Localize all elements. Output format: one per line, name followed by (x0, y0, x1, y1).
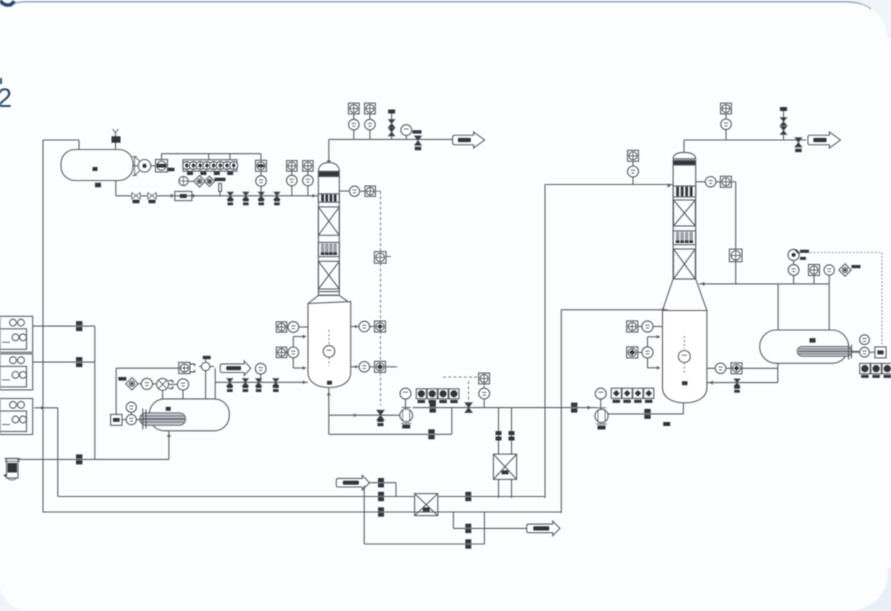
pipe: utility header drop (94, 326, 96, 459)
PSV bubble (dark) (788, 249, 799, 260)
V2 feed row label (118, 377, 126, 381)
pump P1 motor bubble (400, 388, 411, 399)
C2 vent stack (783, 111, 785, 140)
pump P2 motor bubble (595, 388, 606, 399)
signal line horizontal (dashed) (443, 376, 479, 378)
flow bubble FQ (479, 388, 490, 399)
drum D1 bottom nozzle label (95, 183, 101, 188)
pipe: feed 1 to C2 (545, 184, 673, 186)
column C1 demister band (318, 171, 339, 176)
pipe: UB-C supply (34, 407, 58, 409)
flow valve FV2 (465, 403, 473, 408)
off-page flag: STEAM out (527, 521, 560, 536)
sample valve circle (179, 176, 188, 185)
pipe: feed 2 to C2 (recycle) (561, 309, 667, 311)
column C2 overhead riser (683, 140, 685, 152)
overhead instrument A (bubble) (349, 119, 360, 130)
C2 left bubble B (642, 347, 653, 358)
vent label arrow (215, 178, 226, 181)
C1 right lower bubble (359, 362, 370, 373)
bubble 1 on V2 feed (141, 378, 152, 389)
off-page flag: C1 vent (453, 132, 485, 148)
flow diamond on V2 feed (126, 378, 138, 390)
V2 bubble T (126, 402, 136, 412)
pipe: IS3 drop (307, 171, 309, 175)
pipe: drum overflow loop (left tall run) (42, 140, 44, 512)
valve manifold VM1 frame (183, 160, 237, 172)
tag on recirculation (428, 429, 434, 433)
gate valve GV1 (132, 193, 136, 200)
bubble 2 on V2 feed (177, 379, 188, 390)
inline filter FL2 (vertical) (7, 459, 19, 479)
control valve on vent line (415, 136, 422, 141)
bottom-left corner tint (0, 590, 24, 611)
C2 left level taps (647, 337, 649, 347)
flow square FQ (479, 373, 490, 384)
tag near P2 suction (571, 403, 577, 407)
D2 bottom valve row (860, 363, 870, 373)
column C2 dome (673, 152, 696, 158)
signal: PSV to TI (dotted) (799, 252, 882, 254)
instrument stand IS3 (square) (303, 161, 314, 172)
gate valve GV2 (148, 193, 152, 200)
column C2 sump shell (663, 311, 707, 403)
C2 control valve on vent (795, 138, 802, 143)
pipe: condensate loop (line4) (364, 543, 484, 545)
C1 right lower nozzle (351, 366, 359, 368)
block valve BV2 (243, 192, 249, 196)
column C2 skirt cone (663, 279, 707, 311)
C1 top-right bubble (349, 186, 359, 196)
reducer at drum outlet (132, 157, 140, 176)
tag on line2 (378, 507, 384, 511)
check valve diamond 1 (194, 176, 206, 188)
valve stem to vessel (205, 371, 207, 399)
C2 feed instrument (square) (628, 150, 639, 161)
drum D2 label dot (810, 338, 816, 343)
column C1 skirt cone (308, 295, 351, 303)
pump bubble on V2 feed (157, 378, 169, 390)
exchanger E2 (crossed box) (493, 454, 516, 479)
column C2 demister band (673, 160, 696, 165)
pipe: C1 to pump P1 (329, 414, 400, 416)
heater vessel V2 shell (149, 399, 229, 431)
heading text fragment (top-left, cropped) (0, 0, 14, 5)
column C2 packing X1 (674, 200, 696, 226)
check valve diamond 2 (204, 176, 214, 186)
pipe: D1 bottom feed header (115, 181, 117, 196)
C2 overhead instrument (bubble) (721, 119, 732, 130)
instrument stand IS1 (bubble) (256, 176, 267, 187)
off-page flag: STEAM in (336, 475, 369, 490)
C2 left bubble A (642, 321, 653, 332)
pipe: filter to heater vessel (18, 458, 169, 460)
block valve BV1 (227, 192, 233, 196)
pipe: P1 discharge (413, 407, 452, 409)
C1 right lower square (375, 361, 386, 372)
pipe: IS1 drop (260, 171, 262, 175)
card top border (faint blue) (11, 2, 871, 9)
block valve BX2 (242, 379, 248, 383)
C2 left square A (627, 321, 638, 332)
C2 right lower bubble (715, 363, 726, 374)
C1 right upper bubble (359, 321, 370, 332)
drum D2 heater bundle (797, 346, 852, 356)
pipe: steam-out branch (452, 512, 454, 528)
C1 left level taps (292, 337, 294, 348)
column C1 dome (318, 163, 339, 172)
C2 overhead stem (725, 114, 727, 119)
drum D1 shell (61, 150, 133, 181)
C1 left square instrument A (276, 322, 286, 332)
P1 discharge manifold (416, 389, 426, 399)
pipe: UB-C drop to steam line (57, 408, 59, 497)
PSV lower bubble (788, 265, 799, 276)
instrument stand IS2 (bubble) (287, 175, 298, 186)
tags on E2 drops (496, 431, 502, 435)
column C1 level gauge (328, 330, 330, 345)
block valve BV3 (258, 192, 264, 196)
D2 right bubble V (860, 347, 870, 357)
column C2 label dot (682, 381, 688, 385)
V2 heater bundle (140, 413, 186, 426)
pipe: IS2 drop (291, 171, 293, 175)
C2 top-right bubble (705, 177, 716, 188)
pipe: reboiler return (707, 382, 778, 384)
C1 right upper nozzle (351, 326, 359, 328)
TI label (413, 130, 422, 133)
drum D1 relief vent line (115, 132, 117, 150)
block valve BX3 (256, 379, 262, 383)
overhead instrument B stem (369, 114, 371, 119)
pipe: transfer line to P2 (452, 407, 597, 409)
V2 square gauge (111, 414, 122, 425)
pipe: drum outlet to pump (133, 165, 138, 167)
V2 bubble V (126, 415, 136, 425)
bottom-right rounded corner tint (852, 568, 891, 611)
vent stack on overhead (391, 114, 393, 140)
column C1 packing X1 (318, 207, 339, 235)
column C2 distributor band (673, 186, 696, 197)
ball valve on V2 vent (201, 362, 209, 370)
pipe: UB-B supply (33, 361, 95, 363)
column C1 packing X2 (318, 261, 339, 289)
relief vent PSV on D1 (112, 136, 121, 143)
valve on reboiler return (734, 379, 740, 383)
instrument stand IS3 (bubble) (303, 175, 314, 186)
inline filter FL1 (175, 191, 192, 200)
off-page flag: V2 vent (220, 361, 251, 376)
column C2 upper shell (673, 165, 696, 279)
PSV bubble 2 (824, 265, 834, 275)
P2 discharge manifold (611, 388, 621, 398)
drum D1 label dot (93, 167, 98, 171)
C2 top-right nozzle (696, 181, 706, 183)
tag on steam-out (465, 524, 471, 528)
tag on steam tail (378, 478, 384, 482)
instrument stand IS1 (square) (256, 160, 267, 171)
column C1 overhead riser (328, 139, 330, 166)
tag on P1 discharge (430, 403, 436, 407)
column C1 distributor band (318, 194, 339, 202)
column C2 level gauge (683, 336, 685, 349)
signal line: C1 level to valve (dashed) (380, 196, 382, 251)
column C1 sump shell (308, 302, 351, 388)
V2 top instrument square (179, 362, 190, 373)
utility unit UB-B (0, 354, 33, 390)
column C1 support rings (318, 291, 339, 293)
C1 left bubble B (288, 347, 299, 358)
D2 right bubble D (860, 335, 870, 345)
pipe: V2 feed row (138, 383, 141, 385)
C2 vent stack valves (780, 118, 787, 122)
tag on filter line (76, 454, 82, 458)
overhead instrument A (square) (348, 103, 359, 114)
pipe: steam bus line1 cont. (438, 496, 545, 498)
signal line: controller to LV (dashed) (380, 263, 382, 405)
C2 feed instrument (bubble) (628, 166, 639, 177)
top-right rounded corner tint (843, 0, 891, 38)
C2 right lower line (707, 367, 778, 369)
analyzer square on drop (729, 249, 742, 262)
pump P0 circle (138, 160, 151, 173)
utility unit UB-A (0, 316, 33, 352)
C2 feed instrument stem (632, 161, 634, 166)
tag on line1 (465, 492, 471, 496)
sight glass dropper (219, 184, 222, 192)
D2 right square (875, 347, 886, 358)
C2 right lower square (731, 363, 742, 374)
block valve BX4 (273, 379, 279, 383)
block valve BV4 (274, 192, 280, 196)
pipe: P2 suction (608, 413, 683, 415)
C2 top-right square (720, 176, 731, 187)
column C1 tray band (318, 242, 339, 256)
off-page flag: C2 vent (808, 132, 841, 148)
C1 top-right square (365, 186, 375, 196)
pump P2 (595, 409, 608, 422)
PSV check diamond (839, 264, 851, 276)
pipe: manifold header (161, 154, 163, 160)
pipe: UB-A supply (33, 325, 95, 327)
tag on line1 left (378, 492, 384, 496)
blower B1 (square+circle) (156, 160, 168, 173)
pipe: recycle bus (line2) (43, 511, 562, 513)
blower outlet label (168, 168, 175, 172)
pipe: steam flag tail (370, 482, 397, 484)
C1 left square instrument B (276, 347, 286, 357)
pipe: C2 bottoms drop (682, 403, 684, 414)
PSV square (809, 265, 820, 276)
tag UB-A (76, 321, 82, 325)
valve manifold VM1 valves (8) (183, 161, 191, 169)
C2 left square B (627, 347, 638, 358)
level valve LV1 (377, 410, 385, 415)
pipe: C2 analyzer drop (735, 182, 737, 284)
pipe: C2 vapor to D2 (699, 283, 829, 285)
pump P1 (400, 409, 413, 422)
bubble after vent flag (255, 363, 266, 374)
utility unit UB-C (0, 399, 33, 435)
svg-text:2: 2 (0, 83, 12, 113)
PSV labels (800, 250, 809, 253)
column C1 upper shell (318, 177, 339, 296)
V2 label dot (166, 407, 171, 411)
pipe: E2 outlet drops (498, 479, 500, 498)
level controller square (374, 252, 386, 264)
column C2 packing X2 (674, 249, 696, 279)
C1 left bubble A (288, 322, 299, 333)
pipe: sample row (188, 180, 194, 182)
vent stack valves (388, 120, 395, 124)
overhead instrument B (square) (365, 103, 376, 114)
tag on P2 suction (644, 409, 650, 413)
pipe: E2 feed drops (498, 408, 500, 455)
label on P2 suction (663, 422, 670, 426)
pipe: D2 condensate drop (777, 363, 779, 382)
instrument stand IS2 (square) (287, 161, 298, 172)
column C2 tray band (673, 231, 696, 245)
C1 top-right nozzle (339, 190, 349, 192)
block valve BX1 (227, 379, 233, 383)
signal to FV2 (dashed) (468, 381, 470, 402)
drum D2 shell (760, 330, 849, 363)
temperature bubble TI (401, 125, 412, 136)
pipe: V2 vapor to C1 (215, 381, 308, 383)
column C1 label dot (327, 381, 332, 385)
overhead instrument B (bubble) (365, 119, 376, 130)
C2 overhead instrument (square) (721, 103, 732, 114)
tag UB-B (76, 357, 82, 361)
pipe: C1 bottoms line (328, 388, 330, 435)
exchanger E3 (crossed box) (415, 494, 438, 516)
pipe: pump to blower (151, 165, 156, 167)
tag on line4 (465, 539, 471, 543)
pipe: V2 upper line (116, 367, 179, 369)
C1 right upper square (375, 321, 386, 332)
overhead instrument A stem (353, 114, 355, 119)
valve manifold VM1 tags (187, 172, 193, 175)
